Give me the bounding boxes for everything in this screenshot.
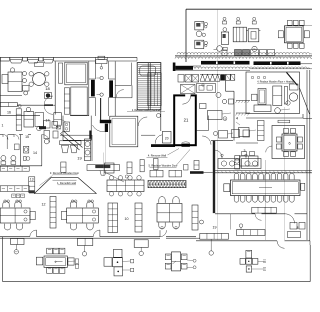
- room2 tv cabinet: [284, 87, 287, 105]
- locker right of G3: [192, 205, 198, 230]
- small desk left of room6: [239, 128, 250, 137]
- shaft room A: [54, 61, 56, 114]
- wall ticks right of room4: [236, 100, 250, 102]
- bench with trapezoid chairs: [60, 141, 82, 145]
- door arc room6: [266, 146, 272, 152]
- conference chairs top row: [234, 173, 239, 179]
- door arc pantry inner: [215, 150, 223, 158]
- credenza above room6: [278, 120, 290, 123]
- corridor wall: [0, 115, 40, 117]
- counter row along room bottom: [235, 50, 242, 56]
- left edge wall: [0, 57, 2, 115]
- plus cluster P3: [246, 250, 252, 258]
- dark wall bars in band: [201, 61, 250, 65]
- room 21 thick rectangle: [174, 95, 196, 145]
- room16-17 divider wall with double door: [17, 104, 44, 106]
- svg-text:1: 1: [2, 124, 4, 128]
- room2 sofa bottom: [254, 105, 271, 112]
- wc toilets bottom: [1, 161, 6, 164]
- desk group G3 2x2: [157, 204, 182, 223]
- top-right room outline: [186, 8, 312, 10]
- stairwell: [137, 63, 161, 110]
- desk near corridor x55: [54, 113, 62, 126]
- svg-text:12: 12: [42, 203, 46, 207]
- desk group G2: [67, 208, 99, 223]
- room3 desk: [240, 156, 259, 166]
- room2 chairs and round table: [290, 84, 299, 90]
- desk with dark chair at wall junction: [45, 93, 52, 99]
- diagonal corridor wall: [61, 134, 80, 151]
- pantry top items: [219, 131, 228, 139]
- svg-text:6: 6: [288, 142, 290, 146]
- svg-text:5. Replace Wooden Door: 5. Replace Wooden Door: [148, 164, 177, 168]
- center room x110-138: [110, 116, 138, 147]
- room 16 counter: [0, 103, 17, 107]
- plus cluster P1: [114, 249, 123, 257]
- svg-text:3. Remove Wooden Door: 3. Remove Wooden Door: [50, 171, 79, 175]
- wall x160 vertical: [160, 63, 162, 131]
- stem table 1: [11, 239, 24, 245]
- svg-text:20: 20: [165, 137, 169, 141]
- sink strip right: [84, 139, 90, 161]
- svg-text:2. Remove existing handrail: 2. Remove existing handrail: [132, 109, 161, 112]
- bottom exterior wall: [0, 236, 30, 238]
- room 21 top door: [185, 94, 190, 97]
- gridline x284: [284, 107, 286, 240]
- svg-text:19: 19: [213, 226, 217, 230]
- upright cabinet x61: [61, 162, 66, 172]
- cabinet block 3: [248, 29, 259, 42]
- room2 sofa left: [258, 89, 266, 105]
- circle-rect bottom middle: [217, 46, 223, 52]
- coat rack zigzag: [200, 74, 220, 81]
- small symbols above cabinets: [223, 21, 227, 24]
- conference right small rect: [301, 183, 305, 190]
- right jog walls: [300, 88, 310, 114]
- gridline vertical x217: [217, 9, 219, 240]
- room14 door arc: [42, 135, 50, 143]
- desk row B with chairs: [107, 180, 144, 192]
- door arc right of stairs: [155, 135, 162, 144]
- dark door bar room x64: [89, 131, 91, 139]
- credenza bottom: [252, 207, 276, 213]
- six-seat table outdoor: [47, 248, 53, 254]
- pantry sink counters: [218, 159, 240, 169]
- elevator door bar 1: [91, 80, 95, 97]
- room4 small items: [222, 99, 226, 103]
- exterior window wall top-left: [0, 56, 137, 58]
- room2 armchair: [252, 94, 257, 101]
- room6 table: [282, 134, 297, 151]
- door arc small room: [116, 90, 124, 98]
- corridor wall segment: [100, 98, 102, 120]
- small room left of stairs: [130, 63, 132, 86]
- room2 door diagonal: [287, 72, 298, 85]
- desk lower right corner items: [290, 222, 297, 229]
- room6 chairs: [284, 129, 289, 134]
- svg-text:16: 16: [7, 111, 11, 115]
- room 20: [162, 131, 171, 143]
- stem table 2: [77, 239, 92, 246]
- room x63-91 y115-140: [62, 116, 64, 141]
- small wc items x43-60: [44, 121, 51, 129]
- wall-mounted box at corridor opening: [98, 56, 105, 59]
- conference bottom wall: [215, 213, 255, 215]
- room 2 outline: [246, 72, 300, 114]
- window sill trapezoids: [10, 60, 22, 63]
- upright cabinets scattered: [127, 162, 132, 174]
- console table with dark center: [87, 165, 120, 171]
- locker strip G1-G2: [50, 197, 56, 229]
- conference left wall thick: [213, 141, 215, 214]
- desks above row C: [150, 170, 163, 177]
- corridor wall stub dark: [190, 171, 204, 174]
- site boundary: [2, 237, 4, 282]
- desk unit right with circle: [221, 32, 228, 44]
- conference top wall: [215, 170, 312, 172]
- right edge double wall: [306, 70, 308, 240]
- room 18 round table with 4 chairs: [33, 73, 46, 86]
- dark appliance block: [220, 74, 225, 80]
- room17 cabinet strip: [16, 109, 21, 131]
- call button circles: [100, 76, 103, 79]
- elevator lobby walls: [88, 61, 90, 116]
- svg-text:3: 3: [244, 149, 246, 153]
- room 21 door tab: [182, 144, 190, 147]
- locker strips G3: [108, 203, 118, 233]
- svg-text:18: 18: [45, 86, 50, 91]
- stem table 3: [134, 240, 148, 248]
- desk inside room x63: [64, 122, 70, 131]
- counter 2 lower right: [237, 230, 266, 236]
- plus cluster P2: [172, 252, 181, 271]
- dark door leaf lower: [39, 126, 46, 129]
- gridline x265: [265, 160, 267, 240]
- room2 table strip: [273, 86, 282, 106]
- pantry walls: [225, 74, 227, 91]
- svg-text:15: 15: [25, 135, 29, 139]
- pantry locker: [235, 156, 240, 170]
- room3 walls: [236, 142, 258, 144]
- kitchen boxes right: [226, 74, 230, 80]
- wc stall doors: [3, 135, 8, 140]
- room14 fixture: [24, 146, 29, 153]
- thick wall below room 21: [151, 144, 175, 147]
- desk group G1: [0, 208, 30, 223]
- counter row B left: [0, 186, 29, 192]
- wc top wall: [0, 134, 3, 136]
- bottom wall door arcs: [30, 230, 37, 237]
- corridor door black L: [100, 120, 111, 123]
- svg-text:8: 8: [297, 226, 299, 230]
- small items near corridor: [194, 161, 199, 170]
- conference chairs bottom row: [234, 196, 239, 202]
- door arc of center room: [138, 117, 147, 126]
- wc stall partitions vertical: [20, 135, 22, 166]
- small squares row: [12, 194, 16, 198]
- hatched demising wall band: [175, 55, 312, 57]
- svg-text:G: G: [253, 47, 255, 51]
- kitchen counter row with appliance X-boxes: [185, 75, 192, 82]
- table below cabinets: [222, 50, 227, 56]
- counter below conference: [200, 233, 229, 239]
- svg-text:13: 13: [30, 178, 34, 182]
- stair handrail loop: [140, 66, 156, 76]
- conference chair left end: [224, 184, 230, 192]
- cabinet strip 13: [29, 177, 35, 193]
- band tick verticals: [179, 56, 181, 58]
- conference table: [231, 180, 301, 196]
- svg-text:14: 14: [33, 151, 37, 155]
- svg-text:1. Demolish wall: 1. Demolish wall: [57, 181, 76, 185]
- door arc conference: [285, 214, 295, 224]
- meeting table 8-seat top-right: [285, 26, 304, 43]
- svg-text:19: 19: [77, 155, 82, 160]
- room17 desks: [24, 112, 34, 128]
- cabinet block 2 striped: [233, 27, 246, 42]
- room below shaft: [71, 87, 87, 115]
- trapezoid ramp: [34, 178, 96, 194]
- duct shaft: [64, 88, 69, 114]
- wc bottom wall: [0, 165, 42, 167]
- hatched counter row C: [148, 181, 186, 188]
- room 6 outline: [272, 126, 305, 159]
- svg-text:4. Remove Wall: 4. Remove Wall: [148, 154, 167, 158]
- wall above pantry: [211, 140, 233, 142]
- svg-text:21: 21: [184, 118, 189, 123]
- corridor wall right of 21: [196, 130, 209, 132]
- room 18 desk with chairs: [8, 72, 22, 92]
- lower kitchen counters: [181, 85, 196, 94]
- bottom wall right segment + door: [196, 240, 277, 242]
- locker strip room6 left: [258, 121, 265, 141]
- svg-text:4. Replace Wooden Floor + Heat: 4. Replace Wooden Floor + Heating: [257, 80, 294, 83]
- door arc pantry corridor: [202, 136, 211, 145]
- counter row A left: [0, 166, 29, 171]
- svg-text:10: 10: [125, 217, 129, 221]
- room4 table: [208, 111, 223, 120]
- desk pair with chairs upper-left of room: [195, 22, 204, 30]
- stair second flight rack: [148, 73, 161, 106]
- elevator door bar 2: [109, 80, 113, 97]
